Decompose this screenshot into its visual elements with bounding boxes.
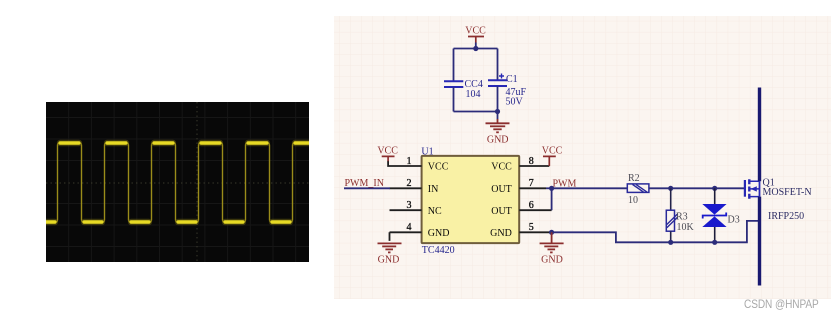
- power symbol VCC (top, above C1/CC4): [465, 26, 486, 49]
- wire: bottom horizontal between cap branches: [454, 111, 498, 113]
- svg-text:D3: D3: [728, 214, 740, 225]
- svg-text:R2: R2: [628, 173, 640, 184]
- svg-text:GND: GND: [378, 254, 400, 265]
- wire: below C1: [497, 86, 499, 111]
- op-amp U1 TC4420 driver body: [422, 156, 520, 243]
- svg-text:10K: 10K: [677, 222, 695, 233]
- svg-text:3: 3: [407, 200, 412, 211]
- pin 2 IN wire: [390, 187, 422, 189]
- node: R3 bottom junction: [668, 240, 673, 245]
- svg-text:OUT: OUT: [491, 184, 512, 195]
- wire: D3 node to Q1 gate: [715, 187, 745, 189]
- scope center axes: [46, 182, 309, 184]
- svg-text:VCC: VCC: [377, 145, 398, 156]
- node: D3 bottom junction: [712, 240, 717, 245]
- svg-text:TC4420: TC4420: [422, 245, 455, 256]
- wire: right branch down to C1: [497, 49, 499, 81]
- wire: down to top GND: [497, 112, 499, 120]
- wire: pin6 riser up to PWM net: [551, 188, 553, 210]
- wire: R2 to R3 junction: [649, 187, 671, 189]
- waveform trace: [46, 143, 309, 222]
- wire: drain rail (thick): [758, 88, 761, 182]
- wire: PWM to R2: [552, 187, 628, 189]
- pin 4 GND wire: [390, 232, 422, 241]
- ground (pin 5): [540, 232, 564, 252]
- svg-text:GND: GND: [490, 228, 512, 239]
- svg-text:GND: GND: [541, 254, 563, 265]
- resistor R3: [666, 188, 694, 242]
- node: D3 top junction: [712, 186, 717, 191]
- wire: left branch down to CC4: [453, 49, 455, 82]
- wire: top horizontal between cap branches: [454, 48, 498, 50]
- svg-text:10: 10: [628, 195, 638, 206]
- diode D3 (bidirectional TVS): [702, 188, 739, 242]
- wire: bottom net to Q1 source (jog): [671, 221, 760, 242]
- node: junction below C1: [495, 109, 500, 114]
- svg-text:GND: GND: [487, 135, 509, 146]
- pin numbers left: [407, 156, 412, 233]
- pin 8 VCC wire: [519, 165, 549, 167]
- wire net PWM_IN: [344, 187, 390, 189]
- svg-text:2: 2: [407, 178, 412, 189]
- ground (pin 4): [378, 243, 402, 252]
- capacitor CC4: [444, 81, 463, 87]
- watermark: [744, 297, 820, 311]
- capacitor C1 (polarized, + mark): [488, 74, 507, 87]
- svg-text:104: 104: [466, 89, 481, 100]
- wire: junction to D3 node: [671, 187, 715, 189]
- resistor R2: [627, 173, 649, 206]
- pin numbers right: [529, 156, 534, 233]
- node: VCC junction above capacitors: [473, 46, 478, 51]
- svg-text:MOSFET-N: MOSFET-N: [763, 187, 812, 198]
- node PWM junction pin7: [549, 186, 554, 191]
- pin names inside U1: [428, 162, 512, 239]
- power symbol VCC (pin 8): [542, 145, 563, 166]
- svg-text:NC: NC: [428, 206, 442, 217]
- pin 1 VCC left: [388, 161, 422, 166]
- wire: source rail (thick): [758, 197, 761, 286]
- svg-text:VCC: VCC: [428, 162, 449, 173]
- svg-text:OUT: OUT: [491, 206, 512, 217]
- svg-text:PWM_IN: PWM_IN: [345, 178, 384, 189]
- svg-text:VCC: VCC: [465, 26, 486, 37]
- pin 5 GND wire: [519, 231, 551, 233]
- pin 7 OUT wire: [519, 187, 546, 189]
- power symbol VCC (pin 1): [377, 145, 398, 161]
- svg-text:VCC: VCC: [542, 145, 563, 156]
- scope graticule: [46, 102, 309, 262]
- pin 6 OUT wire: [519, 209, 551, 211]
- wire: pin5 to lower net with jog: [552, 232, 671, 242]
- node: R2/R3 junction: [668, 186, 673, 191]
- svg-text:50V: 50V: [506, 97, 524, 108]
- svg-text:C1: C1: [506, 74, 518, 85]
- node: pin5 junction: [549, 230, 554, 235]
- svg-text:IRFP250: IRFP250: [768, 211, 804, 222]
- svg-text:U1: U1: [421, 147, 433, 158]
- svg-text:4: 4: [407, 222, 412, 233]
- ground (top, below caps): [486, 119, 510, 132]
- wire: below CC4: [453, 87, 455, 111]
- oscilloscope screenshot: [46, 102, 309, 262]
- svg-text:1: 1: [407, 156, 412, 167]
- pin 3 NC wire: [390, 209, 422, 211]
- transistor Q1 (N-MOSFET): [745, 177, 812, 222]
- svg-text:IN: IN: [428, 184, 439, 195]
- svg-text:VCC: VCC: [491, 162, 512, 173]
- svg-text:GND: GND: [428, 228, 450, 239]
- schematic capture region: [334, 16, 831, 299]
